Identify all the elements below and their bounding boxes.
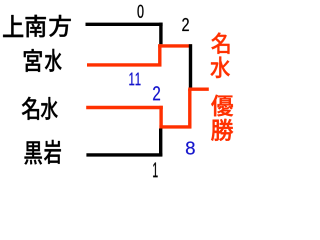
kanji 名 (team 名水): [22, 97, 39, 120]
wire: 宮水 first-round line (red winner): [87, 63, 161, 66]
score 8 (名水, final, blue): [186, 141, 195, 154]
score 0 (上南方, match 1): [138, 5, 144, 18]
kanji 宮 (team 宮水): [24, 49, 42, 72]
kanji 勝 (優勝 championship): [211, 119, 233, 141]
kanji 水 (team 名水): [41, 97, 58, 120]
wire: 黒岩 first-round line (black): [86, 153, 162, 156]
wire: 名水 first-round line (red winner): [86, 106, 163, 109]
wire: champion line to 優勝 (red): [188, 87, 209, 90]
kanji 黒 (team 黒岩): [24, 141, 42, 164]
kanji 優 (優勝 championship): [211, 95, 233, 117]
wire: 上南方 first-round line (black): [86, 23, 163, 26]
wire: match-2 winner line to final (red): [159, 125, 191, 128]
kanji 水 (champion 名水): [210, 56, 230, 78]
wire: match-2 connector lower segment (black): [159, 129, 162, 157]
kanji 方 (team 上南方): [49, 15, 71, 37]
score 1 (黒岩, match 2): [153, 163, 157, 178]
wire: final connector upper segment (black, 宮水 lost final): [189, 44, 192, 87]
score 2 (宮水, final, blue): [153, 86, 160, 100]
kanji 南 (team 上南方): [25, 15, 45, 37]
score 11 (宮水, match 1, blue): [129, 73, 140, 86]
wire: match-1 winner line to final (red): [158, 44, 192, 47]
wire: match-1 connector upper segment (black): [159, 23, 162, 45]
kanji 水 (team 宮水): [45, 49, 62, 72]
score 2 (宮水, final score at top): [182, 18, 189, 31]
wire: final connector lower segment (red, 名水 champion): [188, 89, 191, 129]
wire: match-1 connector lower segment (red, winner 宮水): [158, 44, 161, 66]
wire: match-2 connector upper segment (red, winner 名水): [159, 106, 162, 129]
kanji 名 (champion 名水): [211, 32, 229, 53]
kanji 上 (team 上南方): [3, 15, 23, 37]
kanji 岩 (team 黒岩): [44, 140, 61, 164]
